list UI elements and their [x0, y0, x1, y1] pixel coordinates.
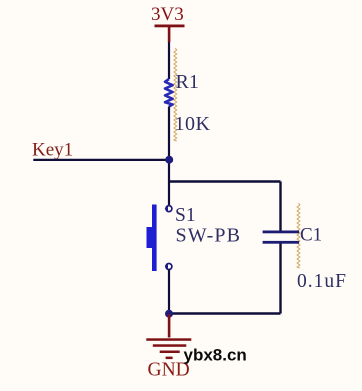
svg-text:SW-PB: SW-PB [176, 224, 242, 246]
switch S1 plunger rectangle [147, 227, 157, 248]
ground bar 1 [146, 338, 191, 341]
resistor R1 body (zigzag) [165, 79, 173, 107]
wire: power to resistor R1 [168, 42, 170, 79]
wire: Key1 horizontal [33, 159, 169, 161]
highlight squiggle on capacitor branch [297, 203, 300, 268]
ground bar 2 [153, 344, 187, 347]
wire: bottom horizontal return [169, 312, 281, 314]
junction dot at Key1 tap [165, 156, 173, 164]
svg-text:S1: S1 [175, 205, 196, 226]
wire: resistor to switch (through junction) [168, 107, 170, 206]
wire: capacitor branch upper vertical [279, 182, 281, 231]
ground bar 4 [166, 357, 173, 360]
svg-text:3V3: 3V3 [151, 4, 184, 25]
switch S1 top contact wedge [165, 207, 168, 211]
wire: capacitor branch lower vertical [279, 244, 281, 314]
switch S1 bottom terminal circle [166, 264, 172, 270]
highlight squiggle on resistor branch [174, 48, 177, 141]
capacitor C1 top plate [263, 231, 300, 234]
capacitor C1 bottom plate [263, 241, 300, 244]
junction dot at ground node [165, 310, 173, 318]
svg-text:C1: C1 [300, 224, 322, 245]
power symbol VCC bar [155, 25, 185, 28]
ground stem [168, 314, 171, 338]
wire: switch to ground junction [168, 269, 170, 313]
switch S1 actuator bar [152, 205, 157, 272]
svg-text:10K: 10K [175, 113, 211, 135]
power symbol stem [168, 27, 171, 42]
svg-text:0.1uF: 0.1uF [297, 271, 347, 292]
wire: tee to capacitor branch [169, 180, 281, 182]
svg-text:ybx8.cn: ybx8.cn [184, 346, 247, 365]
switch S1 bottom contact wedge [165, 265, 168, 269]
svg-text:Key1: Key1 [32, 140, 73, 161]
ground bar 3 [160, 351, 180, 354]
svg-text:R1: R1 [176, 71, 199, 93]
switch S1 top terminal circle [166, 206, 172, 212]
